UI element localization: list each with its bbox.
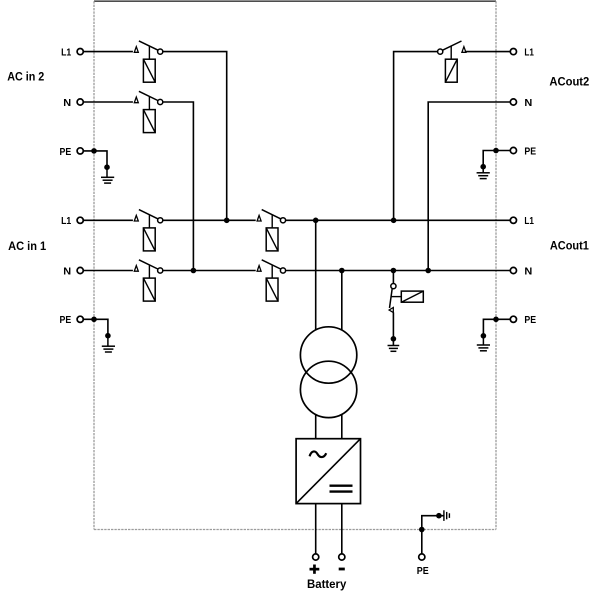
wire ACout2 N from N bus (428, 102, 510, 271)
svg-text:N: N (63, 97, 71, 109)
junction ACout2 N tap (425, 268, 431, 274)
junction PE-in2 earth (104, 164, 110, 170)
svg-text:Battery: Battery (307, 578, 347, 591)
ground earth relay (388, 346, 400, 352)
junction PE-out2 earth (480, 164, 486, 170)
svg-text:PE: PE (417, 565, 429, 577)
svg-text:ACout2: ACout2 (549, 75, 589, 89)
junction PE chassis (436, 513, 442, 519)
wire battery + (315, 504, 317, 554)
wire battery - (341, 504, 343, 554)
junction PE-out2 on enclosure (493, 148, 499, 154)
terminal AC-out PE y319 (510, 316, 516, 322)
relay coil K1 N (143, 278, 155, 301)
ground earth ACout2 (477, 173, 490, 179)
junction PE-in1 earth (105, 333, 111, 339)
wire contact link K1 N (148, 265, 150, 278)
junction transformer N (339, 268, 345, 274)
junction AC-in2 N on N bus (191, 268, 197, 274)
wire N bus to ground contact (392, 271, 394, 284)
wire contact link K2 N (148, 97, 150, 110)
label + (battery plus) (310, 565, 320, 574)
terminal battery + (313, 554, 319, 560)
svg-text:N: N (524, 265, 532, 277)
svg-text:L1: L1 (524, 215, 534, 227)
terminal AC-out PE y150 (510, 147, 516, 153)
junction PE on enclosure bottom (419, 527, 425, 533)
relay contact K2 N (134, 91, 162, 104)
terminal AC-out L1 y51 (510, 49, 516, 55)
terminal AC-in N y270 (77, 267, 83, 273)
wire contact link K1 L1 (148, 215, 150, 228)
wire contact link ACout2 L1 (450, 46, 452, 59)
svg-text:AC in 2: AC in 2 (7, 70, 44, 84)
relay contact K2 L1 (134, 41, 162, 54)
junction transformer L1 (313, 218, 319, 224)
svg-text:N: N (63, 265, 71, 277)
transformer T1 (300, 327, 356, 418)
junction ACout2 L1 tap (391, 218, 397, 224)
wire transformer to inverter right (341, 414, 343, 439)
wire N bus left segment (163, 270, 256, 272)
wire ACout2 PE to earth (483, 151, 510, 167)
wire PE-in1 earth stub (107, 336, 109, 347)
terminal AC-out N y102 (510, 99, 516, 105)
ground earth AC-in2 (101, 177, 114, 183)
wire AC-in2 L1 to L1 bus (163, 52, 227, 221)
relay contact transfer N (257, 260, 286, 273)
wire ground contact to earth (392, 312, 394, 345)
svg-text:PE: PE (60, 146, 72, 158)
wire PE-out1 earth stub (482, 336, 484, 345)
relay coil K1 L1 (143, 228, 155, 251)
terminal PE bottom (419, 554, 425, 560)
wire ACout2 L1 to terminal (466, 51, 510, 53)
wire ACout2 L1 tap from L1 bus (394, 52, 438, 221)
junction PE-out1 on enclosure (493, 317, 499, 323)
label - (battery minus) (339, 568, 345, 571)
wire transformer to inverter left (315, 414, 317, 439)
wire N bus right segment (286, 270, 511, 272)
wire L1 bus right segment (286, 219, 511, 221)
terminal battery - (339, 554, 345, 560)
junction ground relay on N bus (391, 268, 397, 274)
relay contact ACout2 L1 (mirrored) (438, 41, 466, 54)
terminal AC-in N y102 (77, 99, 83, 105)
junction AC-in2 L1 on L1 bus (224, 218, 230, 224)
wire PE-out2 earth stub (482, 167, 484, 173)
relay coil transfer L1 (266, 228, 278, 251)
wire PE-in2 earth stub (106, 167, 108, 177)
svg-text:PE: PE (524, 314, 536, 326)
svg-text:L1: L1 (524, 47, 534, 59)
junction ground relay earth (391, 336, 397, 342)
wire PE chassis (422, 516, 444, 530)
ground chassis (rotated) (444, 510, 450, 521)
wire L1 to transformer (315, 220, 317, 330)
relay coil ACout2 L1 (445, 59, 457, 82)
terminal AC-in L1 y220 (77, 217, 83, 223)
svg-text:AC in 1: AC in 1 (8, 239, 46, 253)
wire ACout1 PE to earth (483, 319, 510, 336)
wire contact link K2 L1 (148, 46, 150, 59)
terminal AC-in PE y319 (77, 316, 83, 322)
wire AC-in2 N to N bus (163, 102, 194, 271)
relay contact K1 L1 (134, 210, 162, 223)
enclosure outline (94, 1, 496, 529)
terminal AC-in PE y150 (77, 148, 83, 154)
wire AC-in1 N terminal to contact (84, 270, 133, 272)
wire contact link transfer L1 (271, 215, 273, 228)
wire N to transformer (341, 271, 343, 331)
relay coil transfer N (266, 278, 278, 301)
svg-text:PE: PE (524, 145, 536, 157)
svg-text:L1: L1 (61, 215, 71, 227)
terminal AC-in L1 y51 (77, 49, 83, 55)
inverter-charger U1 (296, 439, 360, 504)
wire AC-in2 L1 terminal to contact (84, 51, 133, 53)
terminal AC-out N y270 (510, 267, 516, 273)
relay coil ground relay (horizontal) (401, 291, 423, 302)
relay coil K2 L1 (143, 59, 155, 82)
ground earth ACout1 (477, 345, 490, 351)
wire AC-in1 PE to earth (84, 319, 108, 335)
junction PE-out1 earth (481, 333, 487, 339)
wire contact link transfer N (271, 265, 273, 278)
svg-text:L1: L1 (61, 47, 71, 59)
wire AC-in1 L1 terminal to contact (84, 219, 133, 221)
relay contact K1 N (134, 260, 162, 273)
wire AC-in2 N terminal to contact (84, 101, 133, 103)
relay contact ground relay (vertical) (389, 284, 396, 313)
wire L1 bus left segment (163, 219, 256, 221)
terminal AC-out L1 y220 (510, 217, 516, 223)
junction PE-in1 on enclosure (91, 317, 97, 323)
svg-text:N: N (524, 97, 532, 109)
relay coil K2 N (143, 110, 155, 133)
relay contact transfer L1 (257, 210, 286, 223)
wire AC-in2 PE to earth (84, 151, 108, 167)
ground earth AC-in1 (102, 346, 115, 352)
svg-text:PE: PE (60, 314, 72, 326)
wire contact link ground relay (391, 296, 401, 298)
svg-text:ACout1: ACout1 (550, 239, 589, 253)
junction PE-in2 on enclosure (91, 148, 97, 154)
wire PE terminal bottom (421, 530, 423, 554)
